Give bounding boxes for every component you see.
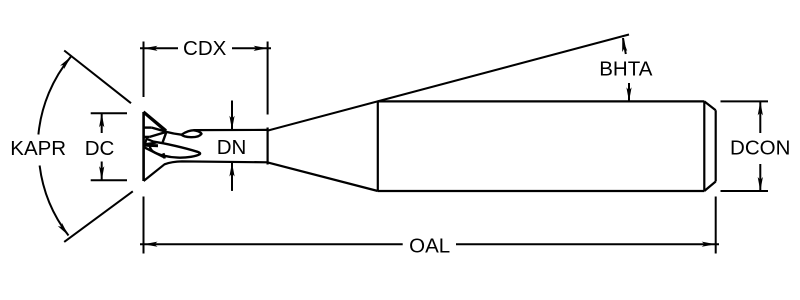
svg-text:BHTA: BHTA	[599, 58, 652, 81]
svg-text:KAPR: KAPR	[10, 137, 66, 160]
svg-text:DN: DN	[217, 136, 247, 159]
svg-text:DC: DC	[85, 137, 115, 160]
svg-text:DCON: DCON	[730, 136, 790, 159]
svg-text:CDX: CDX	[183, 37, 227, 60]
svg-text:OAL: OAL	[409, 234, 450, 257]
